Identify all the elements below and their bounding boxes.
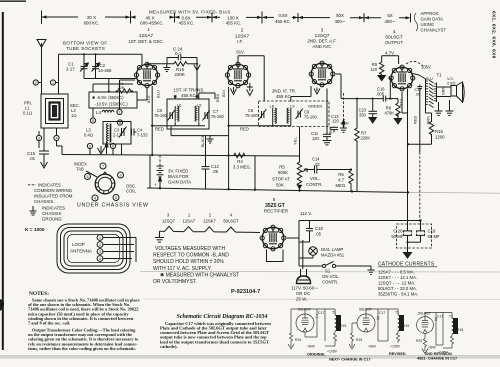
dial lamp xyxy=(309,247,318,256)
svg-text:25 W.: 25 W. xyxy=(296,297,307,302)
svg-text:75-160: 75-160 xyxy=(154,113,167,118)
svg-text:12SQ7 - - - .12 MA.: 12SQ7 - - - .12 MA. xyxy=(378,280,415,285)
svg-text:50K: 50K xyxy=(276,183,284,188)
wires oscillator xyxy=(90,80,147,155)
wires volume section xyxy=(300,184,352,192)
power plug xyxy=(297,269,311,284)
tube U3 12SQ7 xyxy=(309,61,335,87)
node 2 terminal xyxy=(33,80,41,85)
svg-text:2: 2 xyxy=(35,81,37,85)
svg-text:500K: 500K xyxy=(278,170,288,175)
scan blob bottom left xyxy=(0,299,4,311)
ground arrow below C15 xyxy=(41,160,48,168)
svg-text:5: 5 xyxy=(115,196,117,200)
wires IFT1 xyxy=(152,93,228,167)
svg-text:455 KC.: 455 KC. xyxy=(179,21,195,26)
svg-text:.005: .005 xyxy=(376,91,385,96)
svg-text:75-160: 75-160 xyxy=(211,114,224,119)
svg-text:455 KC.: 455 KC. xyxy=(226,21,242,26)
svg-text:S1: S1 xyxy=(325,269,331,274)
node 3 terminal xyxy=(36,135,41,140)
wire U4 plate to T1 xyxy=(413,74,426,80)
svg-text:CONTR.: CONTR. xyxy=(322,280,338,285)
junction dot R6 top xyxy=(350,168,352,170)
svg-text:8: 8 xyxy=(119,121,121,125)
svg-text:RECTIFIER: RECTIFIER xyxy=(264,208,289,213)
socket under chassis view xyxy=(95,172,115,194)
svg-text:BRN: BRN xyxy=(215,93,220,102)
svg-text:7 and 8 of the osc. coil.: 7 and 8 of the osc. coil. xyxy=(28,321,70,326)
wire caps common xyxy=(408,242,421,252)
svg-text:50 MF: 50 MF xyxy=(428,234,441,239)
switch S1 xyxy=(299,262,371,268)
svg-text:600-455KC.: 600-455KC. xyxy=(140,21,163,26)
wires IFT2 bottom xyxy=(229,86,311,161)
svg-text:0.4Ω: 0.4Ω xyxy=(84,133,93,138)
svg-text:T1: T1 xyxy=(332,311,336,315)
svg-text:7: 7 xyxy=(102,165,104,169)
svg-text:SHOULD HOLD WITHIN ± 20%: SHOULD HOLD WITHIN ± 20% xyxy=(153,259,224,265)
svg-text:UNDER CHASSIS VIEW: UNDER CHASSIS VIEW xyxy=(77,203,149,209)
svg-text:50X: 50X xyxy=(336,13,344,18)
resistor R15 xyxy=(429,120,433,144)
ground arrow R9 xyxy=(378,75,385,81)
socket pin 4 xyxy=(92,195,98,201)
loop terminal 4 xyxy=(97,256,103,262)
mini circuit 2 : revised xyxy=(349,308,409,357)
svg-text:5X: 5X xyxy=(387,13,392,18)
svg-text:GROUND.: GROUND. xyxy=(42,217,63,222)
svg-text:6: 6 xyxy=(89,145,91,149)
svg-text:C18: C18 xyxy=(315,226,323,231)
ground arrow R8 xyxy=(394,119,401,125)
IF transformer 1 box xyxy=(167,99,209,129)
svg-text:4: 4 xyxy=(55,137,57,141)
note paragraph 2 (output transformer color coding) xyxy=(28,328,139,351)
svg-text:MEASURED WITH 5V. FIXED- B: MEASURED WITH 5V. FIXED- BIAS xyxy=(149,9,231,14)
link R15/T1 returns y144 xyxy=(408,143,432,145)
pot wiper down arrow xyxy=(297,185,303,190)
chassis ground symbol xyxy=(30,206,37,215)
svg-text:75-160: 75-160 xyxy=(245,113,258,118)
svg-text:GAIN DATA: GAIN DATA xyxy=(168,180,191,185)
svg-text:R15: R15 xyxy=(403,324,409,328)
trimmer C9 xyxy=(296,109,303,120)
socket pin 9 xyxy=(118,172,124,178)
loop terminal 3 xyxy=(97,249,103,255)
oscillator coil L3 box xyxy=(103,122,131,145)
svg-text:6X1, 6X2, 6X8, 6X9: 6X1, 6X2, 6X8, 6X9 xyxy=(491,11,497,59)
bus wire B-minus y188-192 xyxy=(147,188,408,192)
resistor R4 on AVC bus xyxy=(233,153,246,157)
node 7 terminal xyxy=(117,109,122,114)
svg-text:12SA7 - - - 8.5 MA.: 12SA7 - - - 8.5 MA. xyxy=(378,269,415,274)
svg-text:6: 6 xyxy=(86,175,88,179)
svg-text:3: 3 xyxy=(38,137,40,141)
node 1 terminal xyxy=(50,80,58,85)
svg-text:400∼: 400∼ xyxy=(334,19,345,24)
svg-text:2ND REVISION: 2ND REVISION xyxy=(425,352,452,356)
U5 pin jumper loop xyxy=(267,250,284,262)
scan left border xyxy=(2,12,4,350)
junction dots detector xyxy=(356,98,392,100)
3V bias box left edge xyxy=(149,155,151,188)
svg-text:OUTPUT: OUTPUT xyxy=(385,40,403,45)
tube U5 35Z5GT xyxy=(260,225,286,251)
svg-text:81V.: 81V. xyxy=(221,89,226,97)
junction dots xyxy=(151,125,422,222)
tube U1 12SA7 xyxy=(134,62,159,87)
svg-text:112 V.: 112 V. xyxy=(300,211,312,216)
trimmer C8 xyxy=(259,109,266,120)
approx gain data note xyxy=(414,11,446,33)
wire plug xyxy=(302,240,304,269)
svg-text:9: 9 xyxy=(112,145,114,149)
svg-text:14-466: 14-466 xyxy=(98,68,112,73)
svg-text:220K: 220K xyxy=(361,136,371,141)
speaker xyxy=(451,82,464,103)
heater chain wire xyxy=(160,226,261,232)
svg-text:RESPECT TO COMMON -B, AND: RESPECT TO COMMON -B, AND xyxy=(153,253,229,259)
svg-text:470K: 470K xyxy=(384,111,394,116)
svg-text:4: 4 xyxy=(393,29,396,34)
svg-text:600 KC.: 600 KC. xyxy=(84,21,100,26)
svg-text:4881- CHANGE IN C17: 4881- CHANGE IN C17 xyxy=(417,357,457,361)
faint rule right of cathode currents xyxy=(140,271,500,274)
loop terminal 2 xyxy=(97,242,103,248)
svg-text:1Ω: 1Ω xyxy=(71,113,77,118)
shield ground IFT1 xyxy=(207,136,214,143)
cathode stub arrow xyxy=(105,143,108,154)
svg-text:INSULATED FROM: INSULATED FROM xyxy=(34,194,73,199)
svg-text:2ND. IF. TR.: 2ND. IF. TR. xyxy=(272,89,296,94)
svg-text:4: 4 xyxy=(99,257,101,261)
chassis ground U2 right pin xyxy=(247,83,253,96)
tube U2 12SK7 xyxy=(225,62,250,87)
svg-text:81V.: 81V. xyxy=(146,95,151,103)
svg-text:1ST. IF TRANS.: 1ST. IF TRANS. xyxy=(173,88,204,93)
wires detector xyxy=(336,74,398,99)
chassis ground C11 xyxy=(323,141,332,145)
svg-text:GAIN DATA: GAIN DATA xyxy=(421,17,444,22)
svg-text:GREEN: GREEN xyxy=(308,104,322,109)
svg-text:R15: R15 xyxy=(340,324,346,328)
svg-text:R15: R15 xyxy=(435,129,443,134)
svg-text:WITH 117 V. AC. SUPPLY.: WITH 117 V. AC. SUPPLY. xyxy=(153,266,212,272)
svg-text:4.7V.: 4.7V. xyxy=(385,50,395,55)
svg-text:220K: 220K xyxy=(175,72,185,77)
svg-text:OR VOLTOHMYST.: OR VOLTOHMYST. xyxy=(153,279,197,285)
loop antenna coil xyxy=(57,224,130,273)
svg-text:+: + xyxy=(154,182,157,187)
svg-text:1: 1 xyxy=(52,81,54,85)
svg-text:1200: 1200 xyxy=(435,135,445,140)
wire primary to C15 xyxy=(39,128,57,151)
svg-text:2-17: 2-17 xyxy=(66,66,75,71)
svg-text:OR DC: OR DC xyxy=(296,291,310,296)
svg-text:50L6GT - - 33.0 MA.: 50L6GT - - 33.0 MA. xyxy=(378,286,417,291)
svg-text:117V. 50-60∼: 117V. 50-60∼ xyxy=(291,286,318,291)
svg-text:35Z56T/G - 54.1 MA.: 35Z56T/G - 54.1 MA. xyxy=(378,291,418,296)
node 5 terminal xyxy=(90,118,95,123)
svg-text:YEL.: YEL. xyxy=(293,136,298,145)
svg-text:INDICATES: INDICATES xyxy=(42,206,65,211)
battery 3V xyxy=(157,155,164,188)
svg-text:9: 9 xyxy=(119,174,121,178)
svg-text:VOL.: VOL. xyxy=(310,176,320,181)
index arrow xyxy=(86,171,97,177)
svg-text:3.3 MEG.: 3.3 MEG. xyxy=(233,165,251,170)
B- dashed feeder to C19 xyxy=(419,144,422,220)
note paragraph 1 xyxy=(28,298,140,326)
schematic change paragraph xyxy=(160,321,271,349)
svg-text:REVISED: REVISED xyxy=(389,352,406,356)
svg-text:50L6GT: 50L6GT xyxy=(223,218,239,223)
capacitor C15 xyxy=(39,151,49,160)
svg-text:C14: C14 xyxy=(312,157,320,162)
svg-text:400∼: 400∼ xyxy=(384,19,395,24)
svg-text:12SK7: 12SK7 xyxy=(203,218,216,223)
svg-text:75-160: 75-160 xyxy=(304,115,317,120)
wires speaker to T1 xyxy=(437,87,452,97)
ground T1 sec xyxy=(435,102,443,115)
svg-text:455 KC.: 455 KC. xyxy=(181,93,197,98)
svg-text:C17: C17 xyxy=(437,315,443,319)
svg-text:Schematic Circuit Diagram RC-1: Schematic Circuit Diagram RC-1034 xyxy=(177,313,269,320)
electrolytic box C19 C20 xyxy=(397,224,432,248)
tube U4 50L6GT xyxy=(389,65,415,91)
capacitor C20 xyxy=(404,220,412,243)
chassis ground heater xyxy=(155,231,164,242)
svg-text:+105V: +105V xyxy=(390,345,401,349)
ground arrow filter xyxy=(404,248,412,258)
svg-text:CHASSIS.: CHASSIS. xyxy=(34,199,55,204)
svg-text:tions, rather than the color c: tions, rather than the color coding give… xyxy=(28,346,136,351)
svg-text:455 KC.: 455 KC. xyxy=(275,19,291,24)
svg-text:.05: .05 xyxy=(212,169,219,174)
svg-text:RED: RED xyxy=(155,127,164,132)
svg-text:81V.: 81V. xyxy=(236,49,244,54)
svg-text:GRN: GRN xyxy=(442,86,446,95)
ground arrow U3 pin xyxy=(314,88,320,95)
wires lamp xyxy=(299,236,313,266)
svg-text:R15: R15 xyxy=(457,328,463,332)
svg-text:50 MF: 50 MF xyxy=(391,234,404,239)
wire T1 primary bottom down xyxy=(426,107,432,120)
wires R9 / U4 cathode xyxy=(382,56,399,64)
capacitor C19 xyxy=(417,221,425,243)
svg-text:BRN: BRN xyxy=(341,122,349,126)
ground speaker frame xyxy=(446,100,454,115)
svg-text:12SQ7: 12SQ7 xyxy=(162,218,176,223)
svg-text:ON VOL.: ON VOL. xyxy=(322,274,339,279)
svg-text:COMMON WIRING: COMMON WIRING xyxy=(34,188,73,193)
svg-text:RED: RED xyxy=(240,127,249,132)
svg-text:2.8Ω: 2.8Ω xyxy=(447,81,455,86)
svg-text:1ST. DET. & OSC.: 1ST. DET. & OSC. xyxy=(128,39,164,44)
svg-text:81V.: 81V. xyxy=(399,98,404,106)
svg-text:-10.5V. (1500KC.): -10.5V. (1500KC.) xyxy=(95,101,128,106)
wire U5 cathode right to filters xyxy=(287,221,421,239)
svg-text:T1: T1 xyxy=(395,311,399,315)
svg-text:+84V: +84V xyxy=(428,346,437,350)
vertical extra drop x255 xyxy=(254,156,256,190)
svg-text:0.1Ω: 0.1Ω xyxy=(23,111,32,116)
svg-text:12SK7 - - - 12.1 MA.: 12SK7 - - - 12.1 MA. xyxy=(378,275,417,280)
svg-text:+84V: +84V xyxy=(307,345,316,349)
svg-text:RED: RED xyxy=(413,115,418,124)
svg-text:120: 120 xyxy=(370,67,378,72)
socket pin 5 xyxy=(113,195,119,201)
svg-text:1: 1 xyxy=(99,236,101,240)
dashed IFT2 return with ground xyxy=(340,93,347,132)
svg-text:VOLTAGES MEASURED WITH: VOLTAGES MEASURED WITH xyxy=(155,246,225,252)
svg-text:C 20: C 20 xyxy=(393,229,403,234)
socket pin 6 xyxy=(85,174,91,180)
svg-text:2: 2 xyxy=(99,243,101,247)
wire transformer sec down to bus xyxy=(57,146,63,155)
ground arrow osc xyxy=(98,146,105,154)
svg-text:330: 330 xyxy=(359,113,367,118)
resistor R6 xyxy=(349,170,353,185)
svg-text:3: 3 xyxy=(99,250,101,254)
svg-text:L6: L6 xyxy=(177,103,182,108)
svg-text:2ND. DET. A.F.: 2ND. DET. A.F. xyxy=(307,39,336,44)
svg-text:L4: L4 xyxy=(96,110,101,115)
volume control R5 xyxy=(297,161,307,187)
node 9 terminal xyxy=(110,143,115,148)
svg-text:K = 1000: K = 1000 xyxy=(25,227,45,233)
svg-text:TUBE SOCKETS: TUBE SOCKETS xyxy=(66,46,105,51)
wire U1 plate top xyxy=(147,58,197,100)
wire plate node down to C20 xyxy=(402,92,408,113)
mini circuit 3 : second revision xyxy=(416,312,463,356)
svg-text:ANTENNA: ANTENNA xyxy=(70,249,93,254)
ground arrow C23 xyxy=(369,118,376,124)
scan fold gray band xyxy=(0,356,500,359)
svg-text:.05: .05 xyxy=(315,231,322,236)
svg-text:R19: R19 xyxy=(416,339,422,343)
svg-text:COIL: COIL xyxy=(126,189,136,194)
svg-text:P-923104-7: P-923104-7 xyxy=(231,289,260,295)
svg-text:5: 5 xyxy=(92,119,94,123)
svg-text:3: 3 xyxy=(321,28,324,33)
scan top edge mark xyxy=(0,0,26,2)
svg-text:7: 7 xyxy=(118,111,120,115)
svg-text:+105V: +105V xyxy=(327,350,338,354)
trimmer C6 xyxy=(168,110,175,121)
ground arrow U2 pin xyxy=(231,87,237,95)
svg-text:AND AVC: AND AVC xyxy=(313,44,332,49)
svg-text:L5: L5 xyxy=(197,103,202,108)
svg-text:+84V: +84V xyxy=(368,345,377,349)
svg-text:T1: T1 xyxy=(437,73,443,78)
wire U2 plate to IFT2 xyxy=(238,56,264,102)
chassis ground R16 left xyxy=(163,64,170,72)
svg-text:120: 120 xyxy=(312,136,320,141)
svg-text:5: 5 xyxy=(273,197,276,202)
svg-text:C17: C17 xyxy=(379,311,385,315)
starred voltage box xyxy=(89,92,137,108)
svg-text:1: 1 xyxy=(147,27,150,32)
svg-text:INDICATES: INDICATES xyxy=(38,183,61,188)
svg-text:4: 4 xyxy=(94,197,96,201)
svg-text:NOTES:: NOTES: xyxy=(29,291,49,297)
svg-text:✱ MEASURED WITH CHANALYST: ✱ MEASURED WITH CHANALYST xyxy=(160,273,239,279)
svg-text:MAZDA #51: MAZDA #51 xyxy=(321,253,345,258)
svg-text:455 KC.: 455 KC. xyxy=(276,94,292,99)
vertical wire U2 cathode drop xyxy=(228,87,230,189)
svg-text:STOP AT: STOP AT xyxy=(272,177,290,182)
svg-text:I.F.: I.F. xyxy=(237,39,243,44)
bus wire AVC line y155 xyxy=(62,155,300,157)
svg-text:3V. FIXED: 3V. FIXED xyxy=(168,169,188,174)
IF transformer 2 box xyxy=(259,101,330,127)
resistor R8 470K xyxy=(396,99,400,119)
node 8 terminal xyxy=(117,120,122,125)
socket pin 7 xyxy=(100,163,106,169)
svg-text:BIAS FOR: BIAS FOR xyxy=(168,174,189,179)
svg-text:4.7: 4.7 xyxy=(338,178,345,183)
svg-text:R19: R19 xyxy=(356,338,362,342)
mini circuit 1 : original xyxy=(288,308,346,357)
svg-text:R5: R5 xyxy=(279,165,285,170)
svg-text:R4: R4 xyxy=(237,159,243,164)
dashed callout 105V xyxy=(406,61,423,66)
faint bus extension xyxy=(408,191,500,194)
svg-text:R19: R19 xyxy=(295,338,301,342)
svg-text:NEXT- CHANGE IN C17: NEXT- CHANGE IN C17 xyxy=(329,357,371,361)
svg-text:120: 120 xyxy=(332,119,340,124)
wire grid row lower xyxy=(84,79,136,93)
svg-text:L8: L8 xyxy=(270,104,275,109)
svg-text:7-133: 7-133 xyxy=(137,133,148,138)
svg-text:C19: C19 xyxy=(428,229,436,234)
antenna xyxy=(37,40,46,95)
L3 windings xyxy=(107,124,111,143)
cathode currents table xyxy=(378,261,437,296)
node 6 terminal xyxy=(87,143,92,148)
svg-text:cathode).: cathode). xyxy=(160,344,178,349)
svg-text:BOTTOM VIEW OF: BOTTOM VIEW OF xyxy=(63,41,107,46)
svg-text:CONTR.: CONTR. xyxy=(306,182,322,187)
capacitor C18 xyxy=(306,221,313,237)
svg-text:ORIGINAL: ORIGINAL xyxy=(307,353,326,357)
resistor R9 xyxy=(380,62,384,75)
svg-text:R6: R6 xyxy=(338,172,344,177)
ground S1 end xyxy=(368,266,375,274)
svg-text:LOOP: LOOP xyxy=(72,242,85,247)
svg-text:2: 2 xyxy=(241,27,244,32)
resistor R16 xyxy=(174,62,187,66)
svg-text:0.8X: 0.8X xyxy=(278,13,287,18)
svg-text:C17: C17 xyxy=(318,311,324,315)
ground arrow plate node xyxy=(194,65,200,71)
loop terminal 1 xyxy=(97,235,103,241)
svg-text:12SA7: 12SA7 xyxy=(183,218,196,223)
loop terminal wires xyxy=(103,238,136,263)
svg-text:APPROX.: APPROX. xyxy=(421,11,440,16)
legend dash symbol xyxy=(28,184,36,186)
svg-text:TAB: TAB xyxy=(76,167,84,172)
vertical wire U1 cathode drop xyxy=(151,86,153,155)
trimmer C7 xyxy=(203,110,210,121)
measurement dimension line with gain figures xyxy=(42,9,411,25)
svg-text:DIAL LAMP: DIAL LAMP xyxy=(321,247,343,252)
svg-text:20 X: 20 X xyxy=(87,15,96,20)
antenna transformer L1/L2 xyxy=(41,94,68,128)
grid rail wire xyxy=(59,54,143,94)
